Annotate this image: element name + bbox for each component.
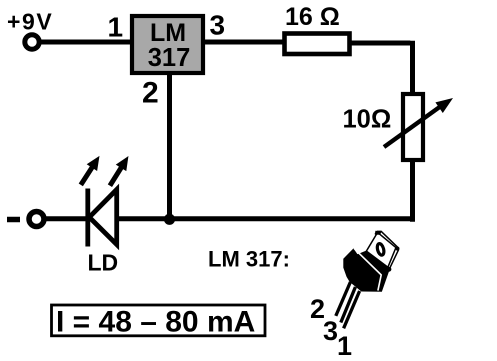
svg-text:LM: LM bbox=[150, 19, 186, 47]
svg-text:3: 3 bbox=[323, 316, 338, 346]
svg-text:LM 317:: LM 317: bbox=[208, 247, 290, 272]
svg-text:I = 48 – 80 mA: I = 48 – 80 mA bbox=[56, 306, 255, 339]
svg-text:1: 1 bbox=[337, 331, 352, 361]
svg-text:LD: LD bbox=[88, 250, 119, 276]
svg-text:10Ω: 10Ω bbox=[343, 106, 392, 134]
svg-text:3: 3 bbox=[210, 10, 226, 41]
svg-text:16 Ω: 16 Ω bbox=[285, 3, 340, 31]
svg-text:+9V: +9V bbox=[7, 9, 53, 35]
svg-text:2: 2 bbox=[142, 77, 159, 110]
svg-text:1: 1 bbox=[108, 12, 124, 43]
svg-text:317: 317 bbox=[148, 44, 191, 72]
